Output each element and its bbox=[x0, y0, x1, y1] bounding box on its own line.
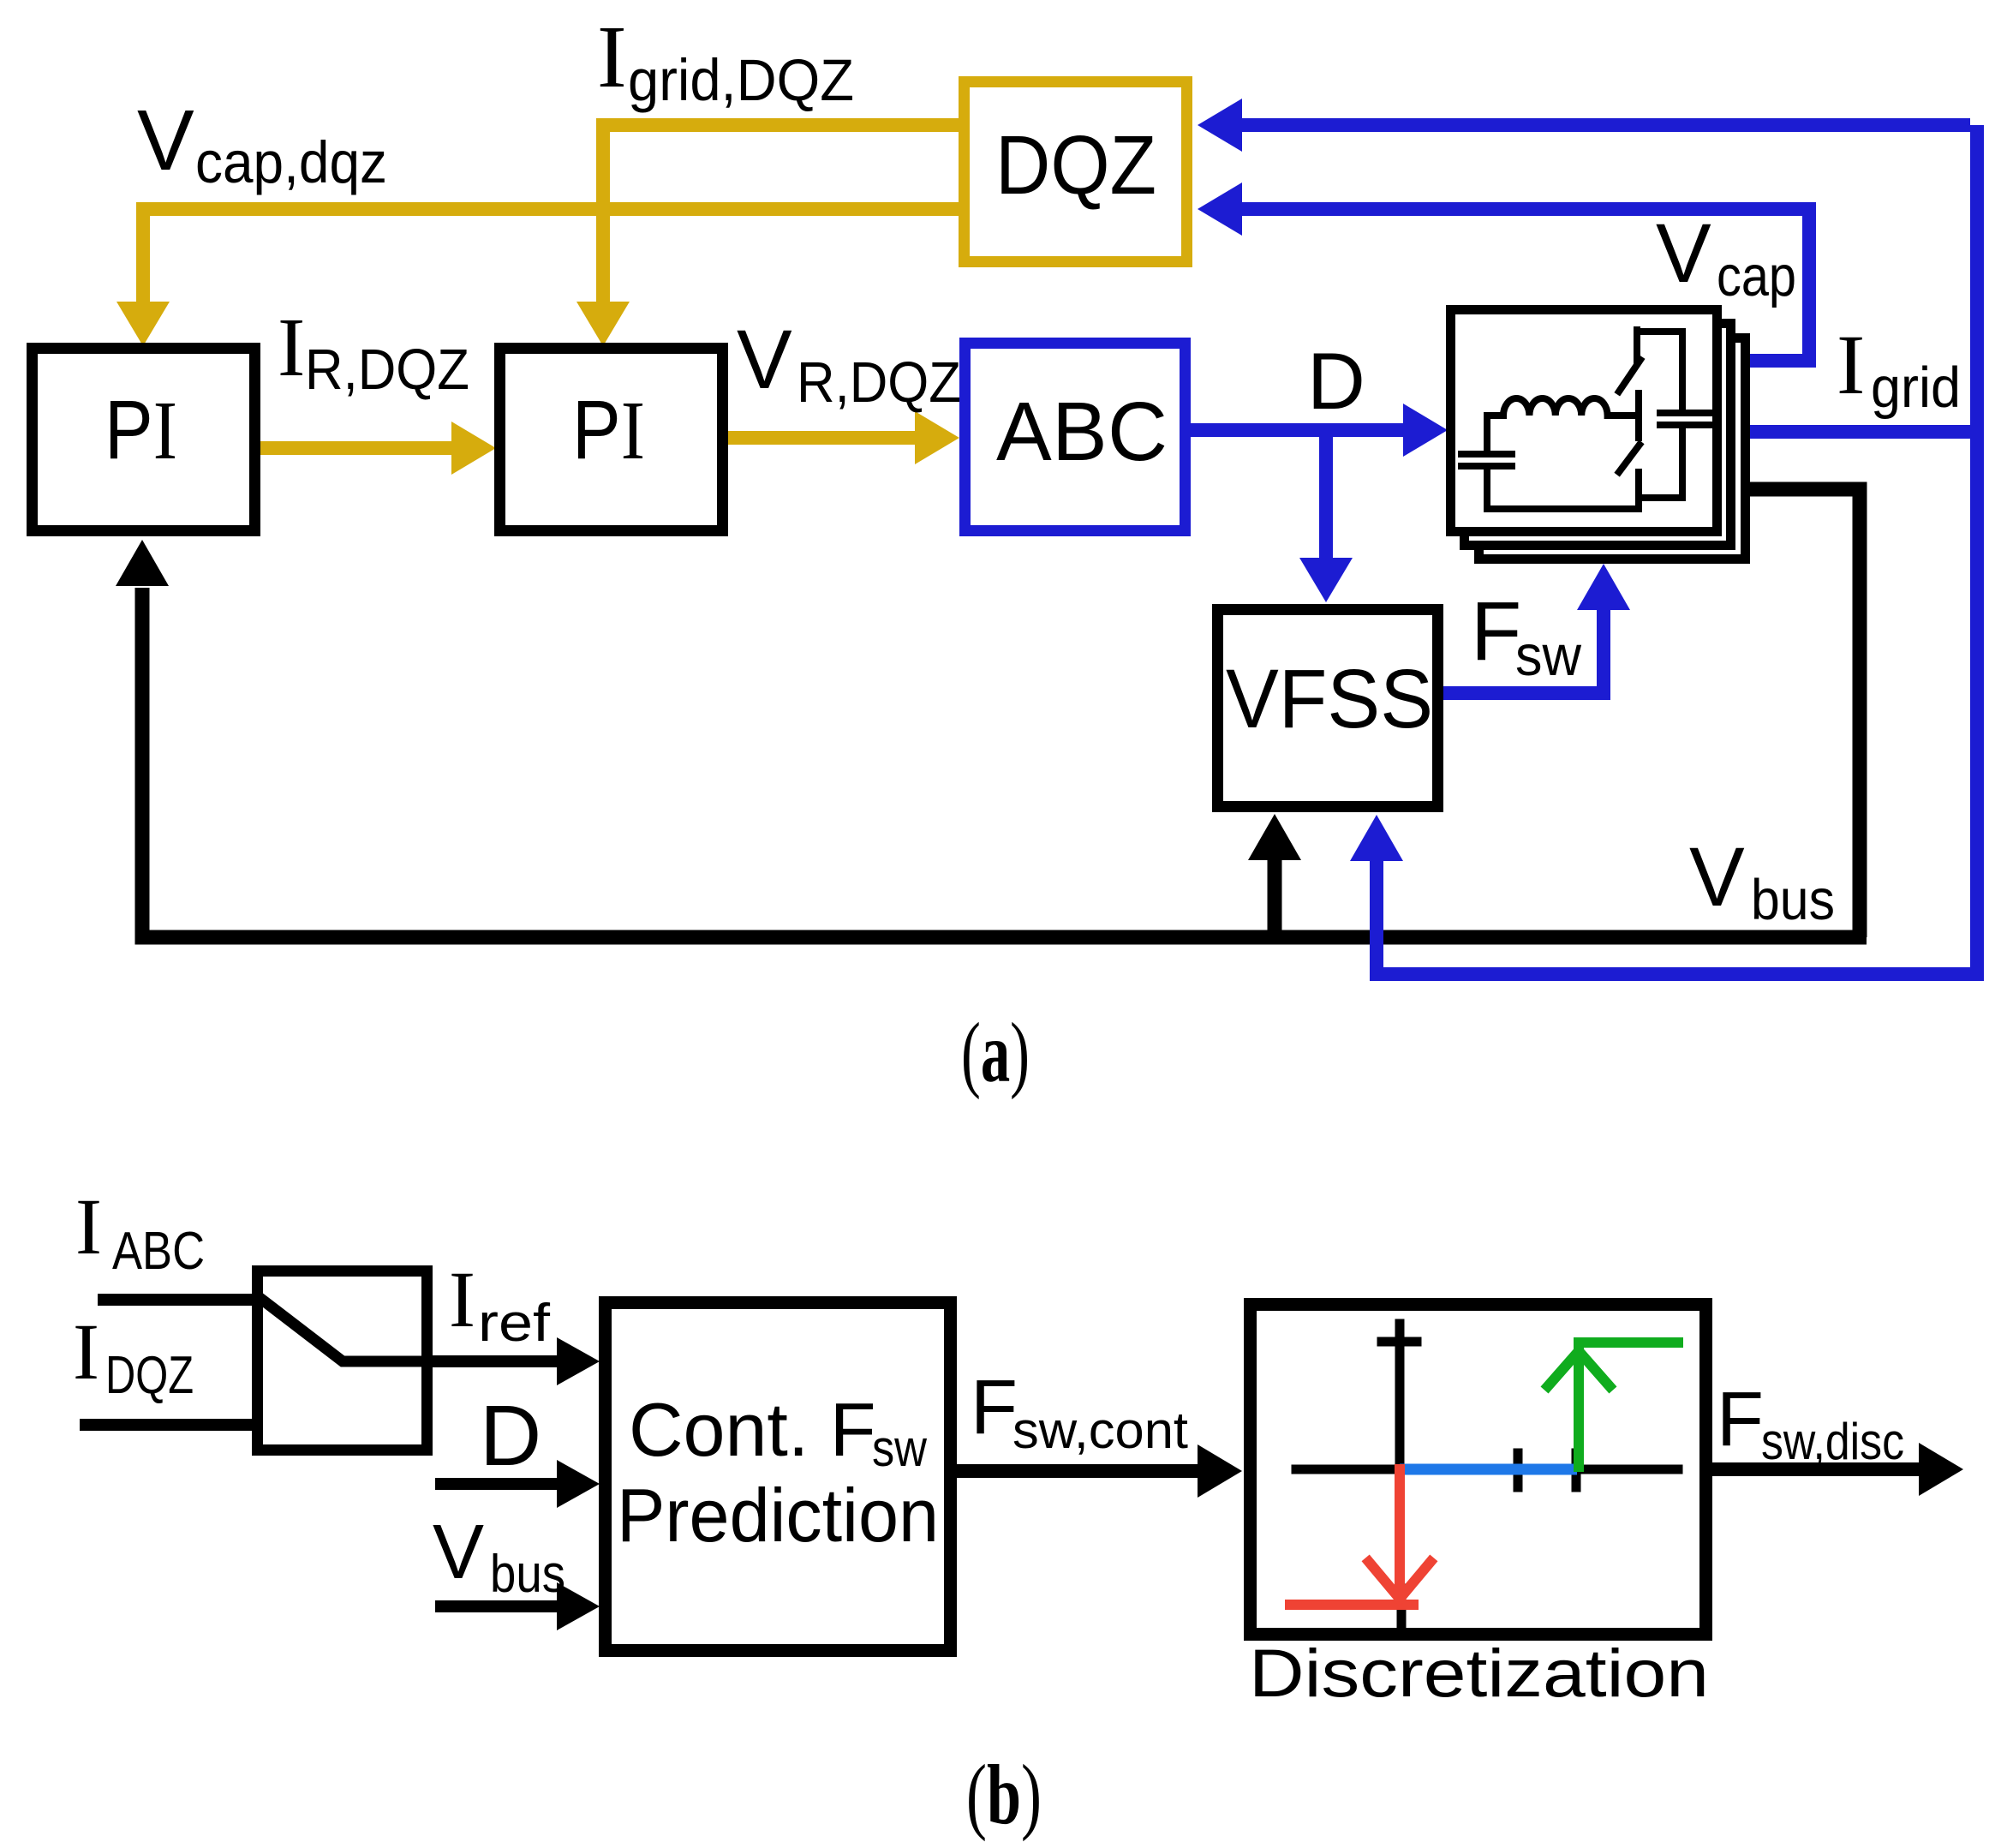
capacitor C-left plates bbox=[1461, 451, 1512, 458]
block converter page3 bbox=[1479, 338, 1746, 559]
block converter front page bbox=[1451, 310, 1717, 532]
block VFSS bbox=[1218, 610, 1438, 807]
svg-text:ref: ref bbox=[478, 1294, 551, 1353]
svg-text:Cont. F: Cont. F bbox=[629, 1387, 876, 1472]
svg-text:bus: bus bbox=[490, 1545, 565, 1604]
svg-text:cap,dqz: cap,dqz bbox=[195, 129, 387, 195]
arrowhead blue into DQZ right lower bbox=[1198, 182, 1242, 236]
svg-text:I: I bbox=[73, 1308, 99, 1396]
svg-text:Prediction: Prediction bbox=[617, 1473, 939, 1558]
wire Igrid,DQZ gold from DQZ to PI2 bbox=[603, 125, 960, 303]
wire IDQZ input bbox=[80, 1419, 254, 1431]
svg-text:sw: sw bbox=[872, 1420, 928, 1477]
svg-text:F: F bbox=[1717, 1377, 1764, 1462]
arrowhead blue D into VFSS top bbox=[1299, 558, 1353, 602]
svg-text:I: I bbox=[278, 302, 305, 393]
wire IR,DQZ gold PI1 to PI2 bbox=[260, 441, 453, 455]
plot green step-up arrow bbox=[1548, 1343, 1678, 1467]
capacitor C-right plates bbox=[1660, 410, 1710, 416]
plot red step-down arrow bbox=[1290, 1469, 1431, 1605]
arrowhead blue D into converter bbox=[1403, 404, 1448, 457]
block converter page2 bbox=[1465, 324, 1731, 546]
wire D arrow (b) bbox=[435, 1478, 559, 1490]
svg-text:PI: PI bbox=[105, 383, 177, 476]
svg-text:D: D bbox=[480, 1388, 541, 1484]
svg-text:V: V bbox=[1656, 206, 1711, 300]
wire top with inductor L bbox=[1487, 412, 1503, 419]
switch S-top bbox=[1634, 330, 1640, 361]
wire D blue from ABC to converter with branch to VFSS bbox=[1191, 430, 1405, 559]
switch S-bottom bbox=[1635, 393, 1642, 438]
svg-text:V: V bbox=[433, 1510, 484, 1595]
block ABC bbox=[965, 344, 1186, 531]
svg-text:F: F bbox=[1471, 584, 1521, 678]
arrowhead gold into PI2 top bbox=[576, 302, 630, 346]
wire bottom bbox=[1487, 505, 1639, 512]
svg-text:V: V bbox=[137, 93, 194, 188]
svg-text:D: D bbox=[1307, 336, 1365, 426]
svg-text:grid,DQZ: grid,DQZ bbox=[628, 47, 854, 113]
converter inner circuit bbox=[1461, 330, 1710, 509]
svg-text:ABC: ABC bbox=[112, 1222, 205, 1281]
wire Fsw,cont arrow bbox=[957, 1464, 1199, 1478]
svg-text:DQZ: DQZ bbox=[995, 118, 1156, 212]
svg-text:R,DQZ: R,DQZ bbox=[797, 350, 961, 415]
block switch box bbox=[258, 1271, 427, 1450]
svg-text:cap: cap bbox=[1717, 244, 1796, 308]
wire left leads bbox=[1484, 416, 1490, 451]
tick top level bbox=[1382, 1337, 1417, 1347]
svg-text:V: V bbox=[737, 313, 792, 406]
wire Vcap,dqz gold from DQZ to PI1 bbox=[143, 209, 960, 303]
svg-text:sw,cont: sw,cont bbox=[1012, 1402, 1188, 1459]
svg-text:grid: grid bbox=[1871, 356, 1961, 420]
svg-text:sw,disc: sw,disc bbox=[1761, 1413, 1904, 1470]
arrowhead black into PI1 bottom bbox=[116, 540, 169, 586]
arrowhead blue into DQZ right upper bbox=[1198, 99, 1242, 152]
svg-text:VFSS: VFSS bbox=[1226, 652, 1433, 745]
svg-text:Discretization: Discretization bbox=[1249, 1635, 1709, 1711]
svg-text:(a): (a) bbox=[961, 1005, 1030, 1100]
wire Vbus arrow (b) bbox=[435, 1600, 559, 1612]
arrowhead gold into PI1 top bbox=[116, 302, 170, 346]
wire Iref arrow bbox=[433, 1355, 559, 1367]
switch blade bbox=[254, 1294, 431, 1361]
plot axes inside Discretization bbox=[1296, 1324, 1678, 1626]
svg-text:sw: sw bbox=[1515, 624, 1582, 688]
svg-text:ABC: ABC bbox=[996, 385, 1168, 478]
svg-text:(b): (b) bbox=[966, 1747, 1042, 1842]
svg-text:I: I bbox=[1837, 317, 1865, 412]
svg-text:PI: PI bbox=[572, 383, 645, 476]
svg-text:R,DQZ: R,DQZ bbox=[305, 338, 469, 402]
axis horizontal bbox=[1296, 1465, 1678, 1474]
plot blue segment bbox=[1400, 1464, 1577, 1475]
block PI2 bbox=[500, 349, 723, 531]
arrowhead black into VFSS bottom bbox=[1248, 814, 1301, 860]
arrowhead blue into VFSS bottom bbox=[1350, 815, 1403, 861]
block PI1 bbox=[33, 349, 255, 531]
wire Vcap blue bbox=[1241, 209, 1809, 361]
svg-text:I: I bbox=[449, 1256, 475, 1344]
svg-text:F: F bbox=[971, 1365, 1018, 1450]
block Discretization bbox=[1251, 1305, 1706, 1635]
wire VR,DQZ gold PI2 to ABC bbox=[728, 431, 917, 445]
wire Fsw,disc output arrow bbox=[1712, 1462, 1919, 1476]
tick x1 bbox=[1514, 1453, 1523, 1487]
svg-text:bus: bus bbox=[1751, 868, 1835, 932]
axis vertical bbox=[1395, 1324, 1405, 1469]
block DQZ bbox=[965, 82, 1187, 262]
svg-text:DQZ: DQZ bbox=[105, 1346, 194, 1405]
block Cont Fsw Prediction bbox=[606, 1303, 951, 1651]
arrowhead gold into PI2 left bbox=[451, 422, 496, 475]
svg-text:V: V bbox=[1689, 830, 1745, 924]
arrowhead blue Fsw up into converter stack bbox=[1577, 564, 1630, 610]
wire Igrid blue right loop bbox=[1241, 125, 1977, 974]
wire Vbus black feedback bbox=[142, 489, 1867, 937]
svg-text:I: I bbox=[597, 8, 627, 106]
tick x2 bbox=[1572, 1453, 1581, 1487]
arrowhead gold into ABC left bbox=[915, 411, 959, 464]
wire IABC input bbox=[98, 1294, 254, 1306]
wire Fsw blue VFSS to converter bbox=[1443, 608, 1604, 693]
svg-text:I: I bbox=[75, 1183, 102, 1271]
tick bottom level bbox=[1397, 1588, 1407, 1626]
